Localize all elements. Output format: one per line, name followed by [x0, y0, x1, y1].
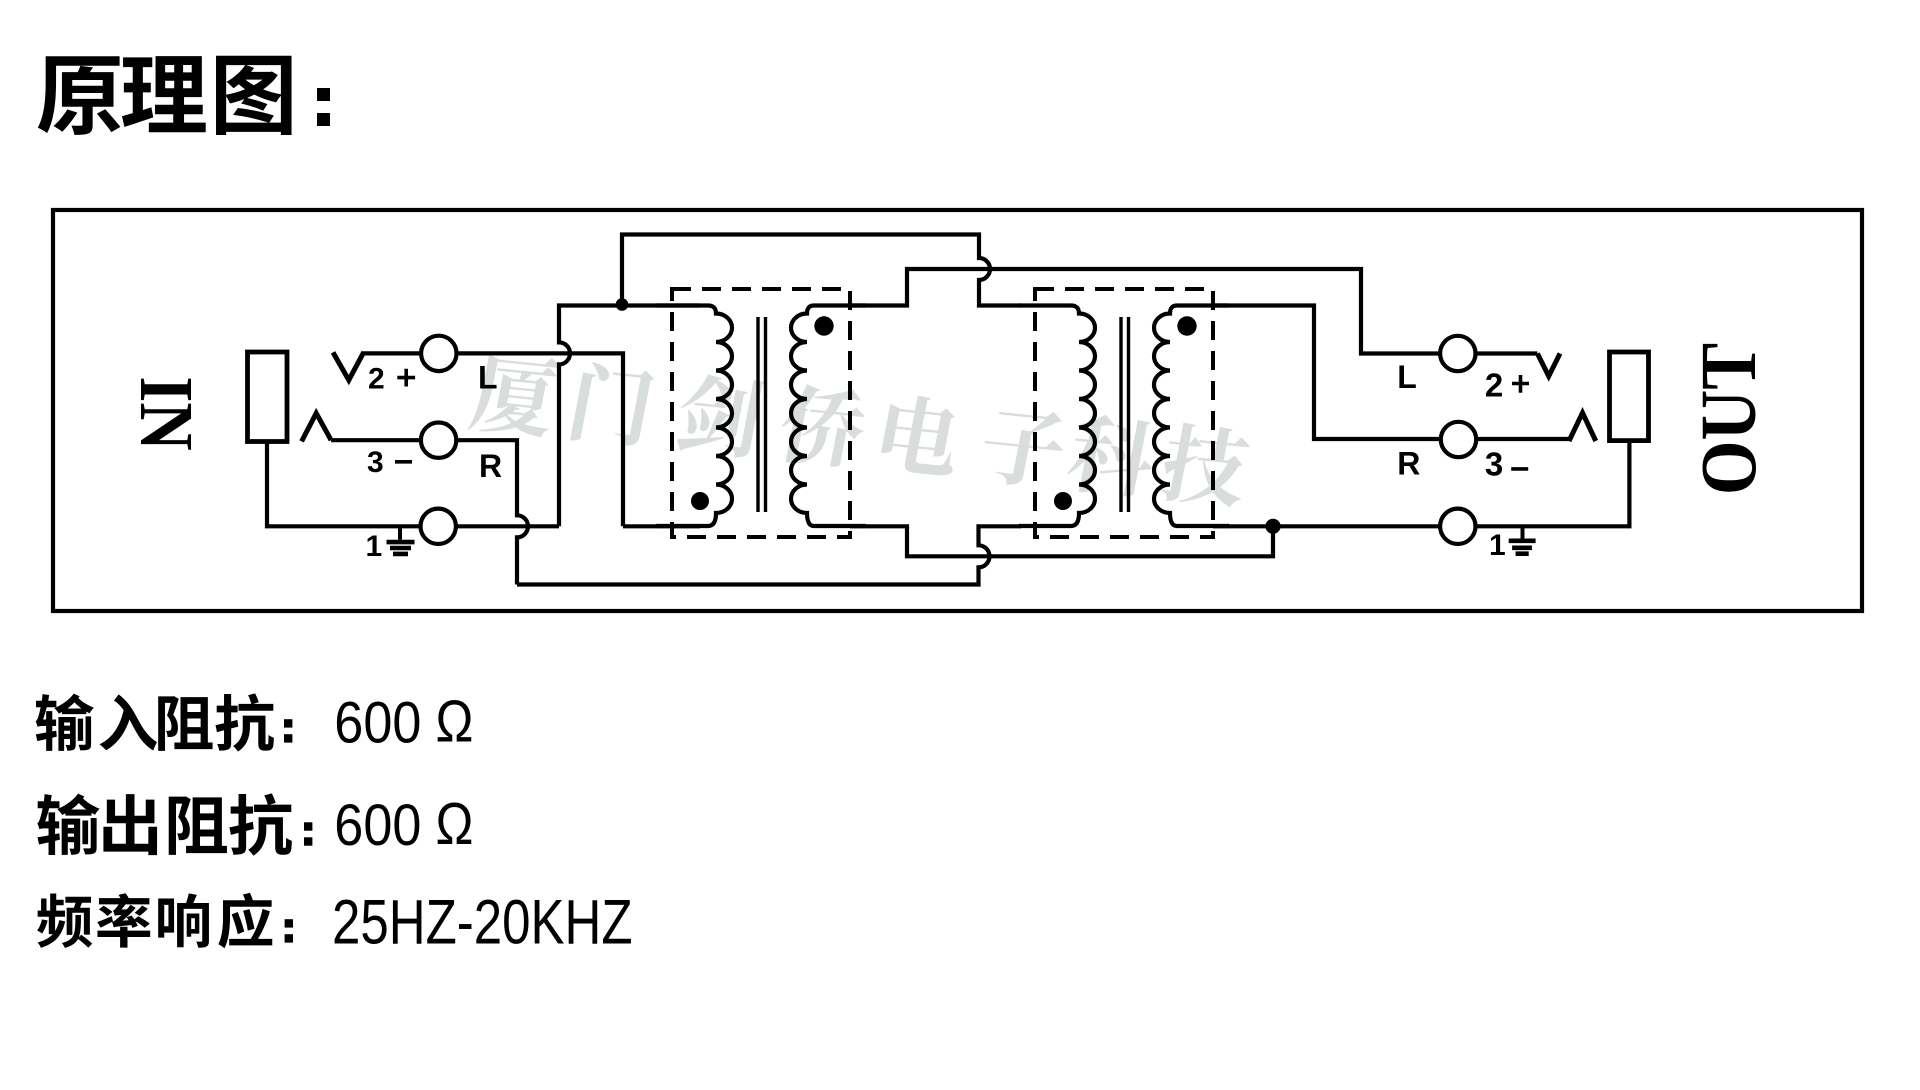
- jack J1 (IN): [248, 352, 288, 442]
- wire IN pin3 to R bus: [331, 440, 528, 584]
- terminal circle OUT pin1: [1440, 509, 1475, 544]
- wire T2 secondary top to OUT R: [1213, 306, 1442, 440]
- wire T1 primary bottom: [623, 524, 700, 528]
- value label 输入阻抗：: [36, 694, 94, 751]
- svg-text:3: 3: [367, 446, 384, 479]
- value label 频率响应：: [37, 894, 92, 948]
- svg-text:Ω: Ω: [436, 791, 474, 857]
- svg-text:L: L: [1397, 359, 1417, 395]
- value label 输出阻抗：: [37, 794, 99, 855]
- wire pin1 riser to T1 primary top: [559, 306, 700, 527]
- terminal circle OUT pin2: [1440, 336, 1475, 371]
- svg-text:600: 600: [334, 792, 421, 857]
- svg-text:R: R: [1397, 446, 1420, 482]
- wire R bus to T2 primary bottom: [517, 526, 1021, 584]
- caret mark on OUT pin3 wire: [1569, 413, 1596, 441]
- svg-text:3: 3: [1485, 446, 1503, 483]
- svg-text:600: 600: [334, 690, 421, 755]
- jack J2 (OUT): [1610, 352, 1649, 441]
- svg-text:OUT: OUT: [1685, 343, 1773, 495]
- ground symbol (IN pin1): [398, 526, 402, 540]
- ground symbol (OUT pin1): [1521, 526, 1525, 539]
- wire IN jack sleeve to pin1: [267, 440, 559, 526]
- wire T2 secondary bottom to OUT pin1: [1213, 441, 1629, 527]
- svg-text:R: R: [479, 448, 502, 484]
- wire OUT pin2 stub: [1476, 351, 1538, 355]
- wire ground bus (T1 secondary bottom to node B): [850, 526, 1273, 556]
- wire T1 secondary top to OUT L: [850, 269, 1442, 354]
- wire top loop (T1 primary top to T2 primary top): [622, 235, 1021, 306]
- V mark on IN pin2 wire: [333, 352, 364, 380]
- enclosure box: [53, 210, 1862, 611]
- watermark text 厦门剑侨电子科技: [467, 351, 1254, 509]
- caret mark on IN pin3 wire: [302, 413, 332, 441]
- svg-text:2: 2: [1485, 367, 1503, 404]
- svg-text:25HZ-20KHZ: 25HZ-20KHZ: [332, 887, 633, 957]
- terminal circle OUT pin3: [1441, 422, 1476, 457]
- terminal circle IN pin3: [421, 423, 456, 458]
- svg-text:1: 1: [366, 530, 383, 563]
- wire OUT pin3 stub: [1477, 437, 1571, 441]
- svg-text:Ω: Ω: [436, 688, 474, 754]
- V mark on OUT pin2 wire: [1537, 354, 1560, 377]
- svg-text:2: 2: [368, 363, 385, 396]
- terminal circle IN pin1: [421, 509, 456, 544]
- terminal circle IN pin2: [421, 336, 456, 371]
- junction node B: [1265, 519, 1280, 534]
- transformer T2: [1019, 289, 1229, 537]
- wire IN pin2 to L node: [361, 353, 623, 526]
- junction node A: [616, 298, 629, 311]
- svg-text:1: 1: [1489, 529, 1506, 562]
- svg-text:L: L: [478, 360, 498, 396]
- title 原理图：: [38, 56, 121, 135]
- svg-text:IN: IN: [124, 376, 208, 450]
